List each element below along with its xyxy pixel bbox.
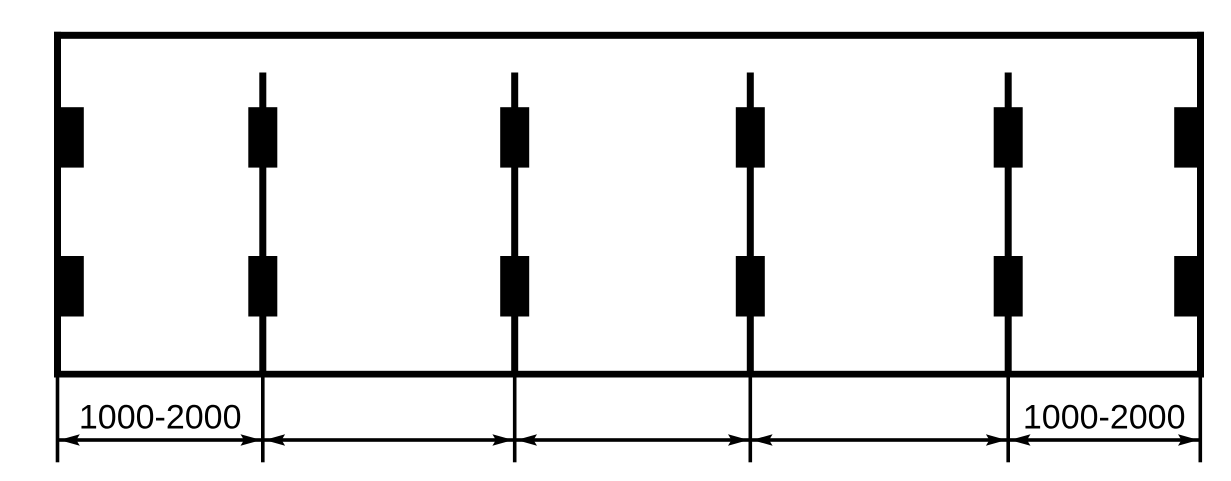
fastener pad right-edge bottom — [1174, 256, 1204, 317]
arrowhead right at V1 — [241, 434, 262, 446]
fastener pad left-edge top — [54, 107, 84, 167]
fastener pad left-edge bottom — [54, 256, 84, 317]
wall top chord — [54, 32, 1204, 39]
batten 1 — [259, 73, 266, 378]
arrowhead right at V3 — [728, 434, 749, 446]
arrowhead right at V2 — [492, 434, 513, 446]
svg-text:1000-2000: 1000-2000 — [79, 399, 242, 437]
extension line V5 — [1199, 377, 1203, 462]
fastener pad batten4 bottom — [994, 256, 1023, 317]
svg-text:1000-2000: 1000-2000 — [1023, 399, 1186, 437]
wall left edge — [54, 32, 61, 378]
fastener pad right-edge top — [1174, 107, 1204, 167]
arrowhead left at V2 — [517, 434, 538, 446]
dimension line — [58, 438, 1201, 442]
arrowhead right at V4 — [986, 434, 1007, 446]
fastener pad batten1 bottom — [248, 256, 277, 317]
extension line V4 — [1006, 377, 1010, 462]
arrowhead left at V3 — [752, 434, 773, 446]
wall right edge — [1197, 32, 1204, 378]
fastener pad batten3 bottom — [736, 256, 765, 317]
arrowhead left at V0 — [59, 434, 80, 446]
batten 2 — [511, 73, 518, 378]
fastener pad batten4 top — [994, 107, 1023, 167]
wall bottom chord — [54, 371, 1204, 378]
fastener pad batten2 top — [500, 107, 529, 167]
extension line V3 — [749, 377, 753, 462]
extension line V2 — [513, 377, 517, 462]
arrowhead right at V5 — [1178, 434, 1199, 446]
batten 3 — [747, 73, 754, 378]
fastener pad batten3 top — [736, 107, 765, 167]
fastener pad batten2 bottom — [500, 256, 529, 317]
extension line V1 — [261, 377, 265, 462]
arrowhead left at V4 — [1010, 434, 1031, 446]
arrowhead left at V1 — [265, 434, 286, 446]
batten 4 — [1005, 73, 1012, 378]
extension line V0 — [56, 377, 60, 462]
fastener pad batten1 top — [248, 107, 277, 167]
